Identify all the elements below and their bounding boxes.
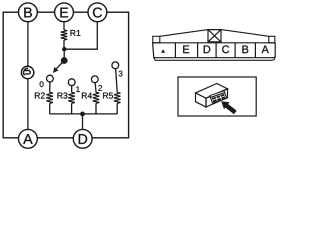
wire B down to thermal element: [27, 12, 29, 66]
connector body top face: [196, 84, 228, 99]
pin separator 1: [174, 43, 176, 58]
connector roof right slope: [221, 30, 269, 37]
contact 0: [47, 75, 54, 82]
location inset frame: [178, 77, 256, 116]
wire junction to switch pivot: [63, 49, 65, 58]
label 0: [40, 81, 44, 87]
pin separator 4: [234, 43, 236, 58]
connector right lug: [269, 36, 275, 43]
wire R4 to rail: [95, 103, 97, 114]
connector latch (crossed box): [208, 30, 221, 42]
resistor R5: [114, 92, 121, 103]
label R5: [103, 93, 113, 99]
connector roof left slope: [160, 30, 208, 37]
connector body front face: [206, 89, 228, 107]
connector body left face: [196, 93, 207, 107]
resistor R2: [46, 92, 53, 103]
label 3: [119, 71, 123, 77]
wire contact 2 to R4: [94, 83, 97, 93]
contact 2: [91, 76, 98, 83]
wire rail to D: [82, 114, 84, 130]
terminal C: [88, 3, 107, 22]
pin separator 3: [215, 43, 217, 58]
connector left lug: [153, 36, 160, 43]
wire contact 0 to R2: [49, 82, 51, 92]
wire rail: [50, 113, 118, 115]
thermal element (circled): [21, 66, 33, 78]
terminal D: [73, 129, 92, 148]
pin label D: [204, 46, 211, 54]
pin label B: [242, 46, 248, 54]
label R1: [71, 30, 81, 36]
resistor R4: [93, 92, 100, 103]
wire contact 1 to R3: [71, 86, 73, 93]
pin separator 5: [254, 43, 256, 58]
pointer arrow: [221, 101, 237, 114]
resistor R1: [61, 30, 68, 40]
wire R2 to rail: [49, 103, 51, 114]
label R4: [82, 93, 92, 99]
pin separator 2: [197, 43, 199, 58]
wire R3 to rail: [71, 103, 73, 114]
index mark triangle: [161, 49, 165, 53]
connector terminal block: [210, 91, 227, 103]
wire R1 to junction: [63, 40, 65, 49]
wire R5 to rail: [116, 103, 118, 114]
wire E down to R1: [63, 12, 65, 30]
node junction below R1: [62, 47, 66, 51]
wire contact 3 to R5: [116, 69, 118, 93]
contact 1: [68, 79, 75, 86]
pin label C: [222, 45, 229, 53]
wire junction to C branch: [64, 12, 97, 49]
terminal E: [55, 3, 74, 22]
label R2: [35, 93, 45, 99]
label R3: [58, 93, 68, 99]
contact 3: [112, 62, 119, 69]
resistor R3: [68, 92, 75, 103]
terminal A: [19, 129, 38, 148]
label 2: [98, 85, 102, 91]
wire thermal element down to A: [27, 79, 29, 130]
connector face pin-row band: [153, 43, 276, 58]
connector band bottom depth edge: [154, 56, 275, 60]
pin label A: [262, 46, 269, 54]
schematic enclosure box: [3, 12, 128, 138]
pin label E: [183, 46, 189, 54]
label 1: [76, 87, 79, 93]
node rail junction: [80, 112, 85, 117]
terminal B: [19, 3, 38, 22]
switch arm with arrowhead: [53, 61, 64, 74]
switch pivot: [61, 57, 68, 64]
